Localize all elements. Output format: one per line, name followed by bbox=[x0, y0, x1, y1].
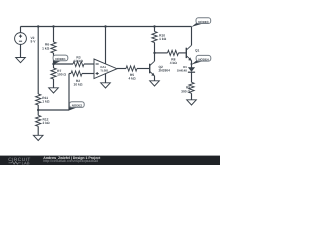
svg-text:NODE2: NODE2 bbox=[72, 104, 83, 108]
wire R5 to Q2 base bbox=[137, 68, 149, 70]
wire R9 to gnd bbox=[191, 93, 193, 100]
wire R8 to Q1 base bbox=[179, 52, 186, 54]
junction rail-R11 branch bbox=[37, 25, 39, 27]
wire Q2 emitter bbox=[154, 76, 156, 81]
wire Q1 emitter to node4 bbox=[191, 61, 193, 68]
resistor R10 bbox=[152, 32, 157, 43]
resistor R7 bbox=[51, 68, 56, 79]
wire top rail bbox=[21, 26, 192, 28]
wire R6 to R7 bbox=[53, 53, 55, 68]
node NODE2 bbox=[69, 102, 85, 111]
svg-text:1 kΩ: 1 kΩ bbox=[159, 37, 167, 41]
junction Q2 collector / R8 bbox=[153, 52, 155, 54]
node NODE3 bbox=[191, 18, 210, 27]
wire R12-gnd bbox=[37, 126, 39, 135]
resistor R5 bbox=[126, 66, 137, 71]
transistor Q2 bbox=[150, 61, 155, 76]
junction rail-opamp V+ bbox=[104, 25, 106, 27]
svg-text:NODE1: NODE1 bbox=[55, 57, 66, 61]
svg-text:1N4148: 1N4148 bbox=[177, 69, 188, 73]
wire rail to R6 bbox=[53, 27, 55, 43]
wire node2 vertical bbox=[68, 74, 70, 111]
wire opamp V- bbox=[105, 74, 107, 83]
svg-text:NODE4: NODE4 bbox=[198, 57, 209, 61]
ground under V2 bbox=[16, 58, 26, 63]
svg-text:1 kΩ: 1 kΩ bbox=[42, 100, 50, 104]
resistor R12 bbox=[36, 115, 41, 126]
svg-text:4 kΩ: 4 kΩ bbox=[170, 61, 178, 65]
wire R7 to gnd bbox=[53, 79, 55, 88]
svg-text:100 Ω: 100 Ω bbox=[57, 73, 66, 77]
wire node to R8 bbox=[155, 52, 168, 54]
resistor R2 bbox=[71, 71, 82, 76]
wire R2 to opamp bbox=[82, 73, 94, 75]
wire Q2 collector bbox=[154, 53, 156, 61]
svg-text:LAB: LAB bbox=[22, 160, 30, 165]
junction rail-R6 branch bbox=[52, 25, 54, 27]
node NODE2 junction bbox=[37, 109, 39, 111]
svg-text:300 Ω: 300 Ω bbox=[181, 89, 190, 93]
voltage source V2 bbox=[15, 33, 27, 45]
wire node2 to R2 bbox=[69, 73, 71, 75]
wire R11-R12 bbox=[37, 105, 39, 115]
footer bar bbox=[0, 156, 220, 166]
node NODE1 bbox=[53, 55, 68, 65]
wire opamp out bbox=[117, 68, 126, 70]
resistor R8 bbox=[168, 50, 179, 55]
junction rail-R10 branch bbox=[153, 25, 155, 27]
svg-text:10 kΩ: 10 kΩ bbox=[74, 59, 83, 63]
wire R3 to opamp bbox=[84, 63, 94, 65]
svg-text:http://circuitlab.com/c6pkbqtz: http://circuitlab.com/c6pkbqtzadba8 bbox=[43, 159, 98, 163]
ground under op-amp bbox=[101, 83, 111, 88]
ground under Q2 bbox=[150, 81, 160, 86]
ground under R9 bbox=[187, 100, 197, 105]
wire node2 horizontal bbox=[38, 109, 69, 111]
svg-text:Q1: Q1 bbox=[195, 48, 200, 52]
junction dots bbox=[37, 25, 193, 111]
wire V2 bottom bbox=[20, 44, 22, 57]
wire rail to R10 bbox=[154, 27, 156, 32]
ground under R12 bbox=[33, 135, 43, 140]
resistor R3 bbox=[73, 61, 84, 66]
wire R10 to collector node bbox=[154, 43, 156, 53]
wire V2 top bbox=[20, 27, 22, 33]
ground under R7 bbox=[49, 88, 59, 93]
node NODE4 junction bbox=[191, 63, 193, 65]
wire opamp V+ bbox=[105, 27, 107, 64]
svg-text:1 kΩ: 1 kΩ bbox=[42, 46, 50, 50]
svg-text:2 kΩ: 2 kΩ bbox=[43, 121, 51, 125]
svg-text:9 V: 9 V bbox=[31, 40, 37, 44]
resistor R11 bbox=[36, 94, 41, 105]
wire node1 to R3 bbox=[54, 63, 74, 65]
svg-text:4 kΩ: 4 kΩ bbox=[128, 77, 136, 81]
wire Q1 collector bbox=[191, 27, 193, 46]
resistor R9 bbox=[189, 82, 194, 93]
svg-text:TL081: TL081 bbox=[100, 68, 109, 72]
op-amp OA1 bbox=[94, 59, 117, 79]
svg-text:10 kΩ: 10 kΩ bbox=[74, 83, 83, 87]
transistor Q1 bbox=[186, 45, 191, 60]
resistor R6 bbox=[51, 42, 56, 53]
wire D1 to R9 bbox=[191, 72, 193, 82]
svg-text:2N3904: 2N3904 bbox=[159, 69, 171, 73]
svg-text:NODE3: NODE3 bbox=[198, 20, 209, 24]
node NODE4 bbox=[192, 55, 211, 64]
node NODE1 junction bbox=[52, 63, 54, 65]
wire branch x37.7 upper bbox=[37, 27, 39, 95]
diode D1 bbox=[188, 67, 195, 72]
